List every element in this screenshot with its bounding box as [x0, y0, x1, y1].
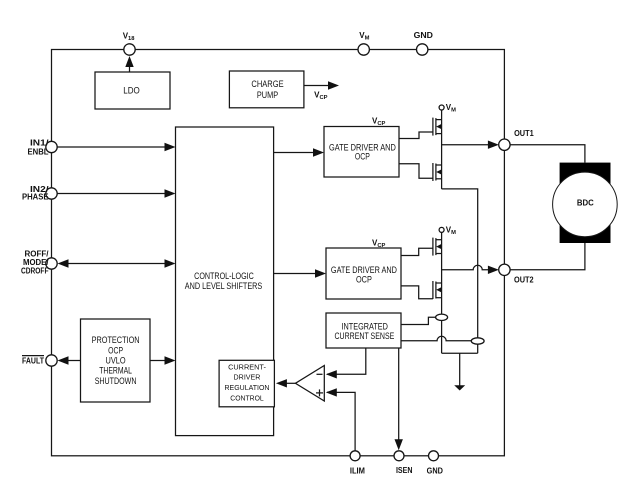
svg-text:UVLO: UVLO: [106, 356, 126, 366]
charge pump box: [229, 71, 304, 108]
wire IN1 to control logic: [57, 146, 165, 148]
wire ILIM to comparator plus input: [327, 392, 355, 450]
current sense element CS2: [471, 338, 484, 344]
svg-text:OUT2: OUT2: [514, 276, 534, 285]
wire IN2 to control logic: [57, 193, 165, 195]
wire ROFF to control logic (double arrow): [65, 263, 166, 265]
current sense element CS1: [436, 314, 448, 320]
svg-text:AND LEVEL SHIFTERS: AND LEVEL SHIFTERS: [185, 281, 263, 291]
svg-text:ISEN: ISEN: [396, 466, 413, 475]
wire protection to FAULT: [66, 360, 81, 362]
comparator A1: [295, 366, 324, 402]
pin OUT2: [499, 264, 510, 275]
svg-text:IN1/: IN1/: [30, 139, 49, 148]
pin IN2/PHASE: [46, 188, 57, 199]
wire ICS to comparator minus input: [327, 348, 366, 374]
wire ICS to ISEN: [398, 348, 400, 444]
svg-text:ENBL: ENBL: [28, 147, 49, 156]
svg-text:FAULT: FAULT: [22, 356, 44, 365]
svg-text:CONTROL: CONTROL: [230, 395, 264, 402]
wire below CS2: [477, 344, 479, 353]
transistor M4 low-side bridge2: [433, 281, 442, 299]
transistor M2 low-side bridge1: [433, 163, 442, 181]
wire control logic to gate driver 2: [274, 273, 316, 275]
wire OUT2 with hop over sense line: [442, 265, 488, 270]
transistor M3 high-side bridge2: [433, 238, 442, 256]
svg-text:PROTECTION: PROTECTION: [92, 335, 140, 345]
svg-text:GND: GND: [427, 467, 444, 476]
wire bridge2 column: [441, 232, 443, 314]
pin ROFF/MODE/CDROFF: [46, 258, 57, 269]
IC outline border: [52, 50, 505, 456]
wire OUT1: [442, 144, 488, 146]
svg-text:ILIM: ILIM: [350, 467, 365, 476]
gate driver 1 box: [324, 127, 399, 178]
svg-text:PHASE: PHASE: [22, 193, 49, 202]
wire gate driver 2 to high-side gate: [401, 248, 433, 255]
wire bridge1 low source to sense line: [442, 189, 478, 338]
svg-text:PUMP: PUMP: [257, 90, 278, 100]
wire comparator output to CDRC: [286, 382, 295, 384]
motor BDC: [553, 163, 618, 243]
svg-text:LDO: LDO: [123, 86, 140, 96]
svg-text:THERMAL: THERMAL: [99, 366, 132, 376]
wire gate driver 2 to low-side gate: [401, 286, 433, 299]
pin FAULT (active low): [46, 355, 57, 366]
wire OUT1 to motor: [510, 145, 585, 163]
svg-text:CONTROL-LOGIC: CONTROL-LOGIC: [194, 271, 254, 281]
svg-text:OCP: OCP: [355, 152, 370, 162]
protection block: [81, 319, 151, 402]
current driver regulation control box: [219, 360, 274, 407]
pin VM: [358, 44, 369, 55]
pin GND top: [417, 44, 428, 55]
wire bridge1 column: [441, 110, 443, 189]
svg-text:SHUTDOWN: SHUTDOWN: [95, 376, 137, 386]
wire protection to control logic: [150, 360, 165, 362]
pin V18: [124, 44, 135, 55]
svg-text:OUT1: OUT1: [514, 129, 534, 138]
wire OUT2 to motor: [510, 243, 585, 270]
transistor M1 high-side bridge1: [433, 118, 442, 136]
wire control logic to gate driver 1: [274, 152, 314, 154]
LDO box: [95, 72, 170, 109]
pin ISEN: [394, 451, 404, 461]
node VM terminal bridge 2: [439, 227, 444, 232]
ground: [459, 353, 461, 385]
wire gate driver 1 to low-side gate: [399, 164, 433, 179]
integrated current sense box: [326, 313, 401, 348]
svg-text:DRIVER: DRIVER: [234, 375, 261, 382]
gate driver 2 box: [326, 248, 401, 299]
control logic box: [176, 127, 274, 436]
wire ICS to CS1: [401, 317, 436, 324]
wire LDO to V18: [129, 61, 131, 72]
pin ILIM: [350, 451, 360, 461]
pin IN1/ENBL: [46, 141, 57, 152]
svg-text:GND: GND: [414, 31, 434, 40]
wire charge pump VCP output: [304, 85, 329, 87]
svg-text:CHARGE: CHARGE: [251, 79, 283, 89]
pin GND bottom: [429, 451, 439, 461]
svg-text:OCP: OCP: [356, 275, 372, 285]
svg-text:CDROFF: CDROFF: [21, 266, 49, 275]
wire below CS1: [441, 321, 443, 354]
svg-text:CURRENT SENSE: CURRENT SENSE: [335, 331, 395, 341]
svg-text:CURRENT-: CURRENT-: [228, 365, 266, 372]
svg-text:REGULATION: REGULATION: [225, 385, 270, 392]
svg-text:OCP: OCP: [108, 345, 123, 355]
wire sense common node: [442, 352, 478, 354]
pin OUT1: [499, 139, 510, 150]
wire ICS to CS2 with hop: [401, 336, 471, 341]
wire gate driver 1 to high-side gate: [399, 132, 433, 139]
node VM terminal bridge 1: [439, 105, 444, 110]
svg-text:BDC: BDC: [577, 198, 594, 207]
